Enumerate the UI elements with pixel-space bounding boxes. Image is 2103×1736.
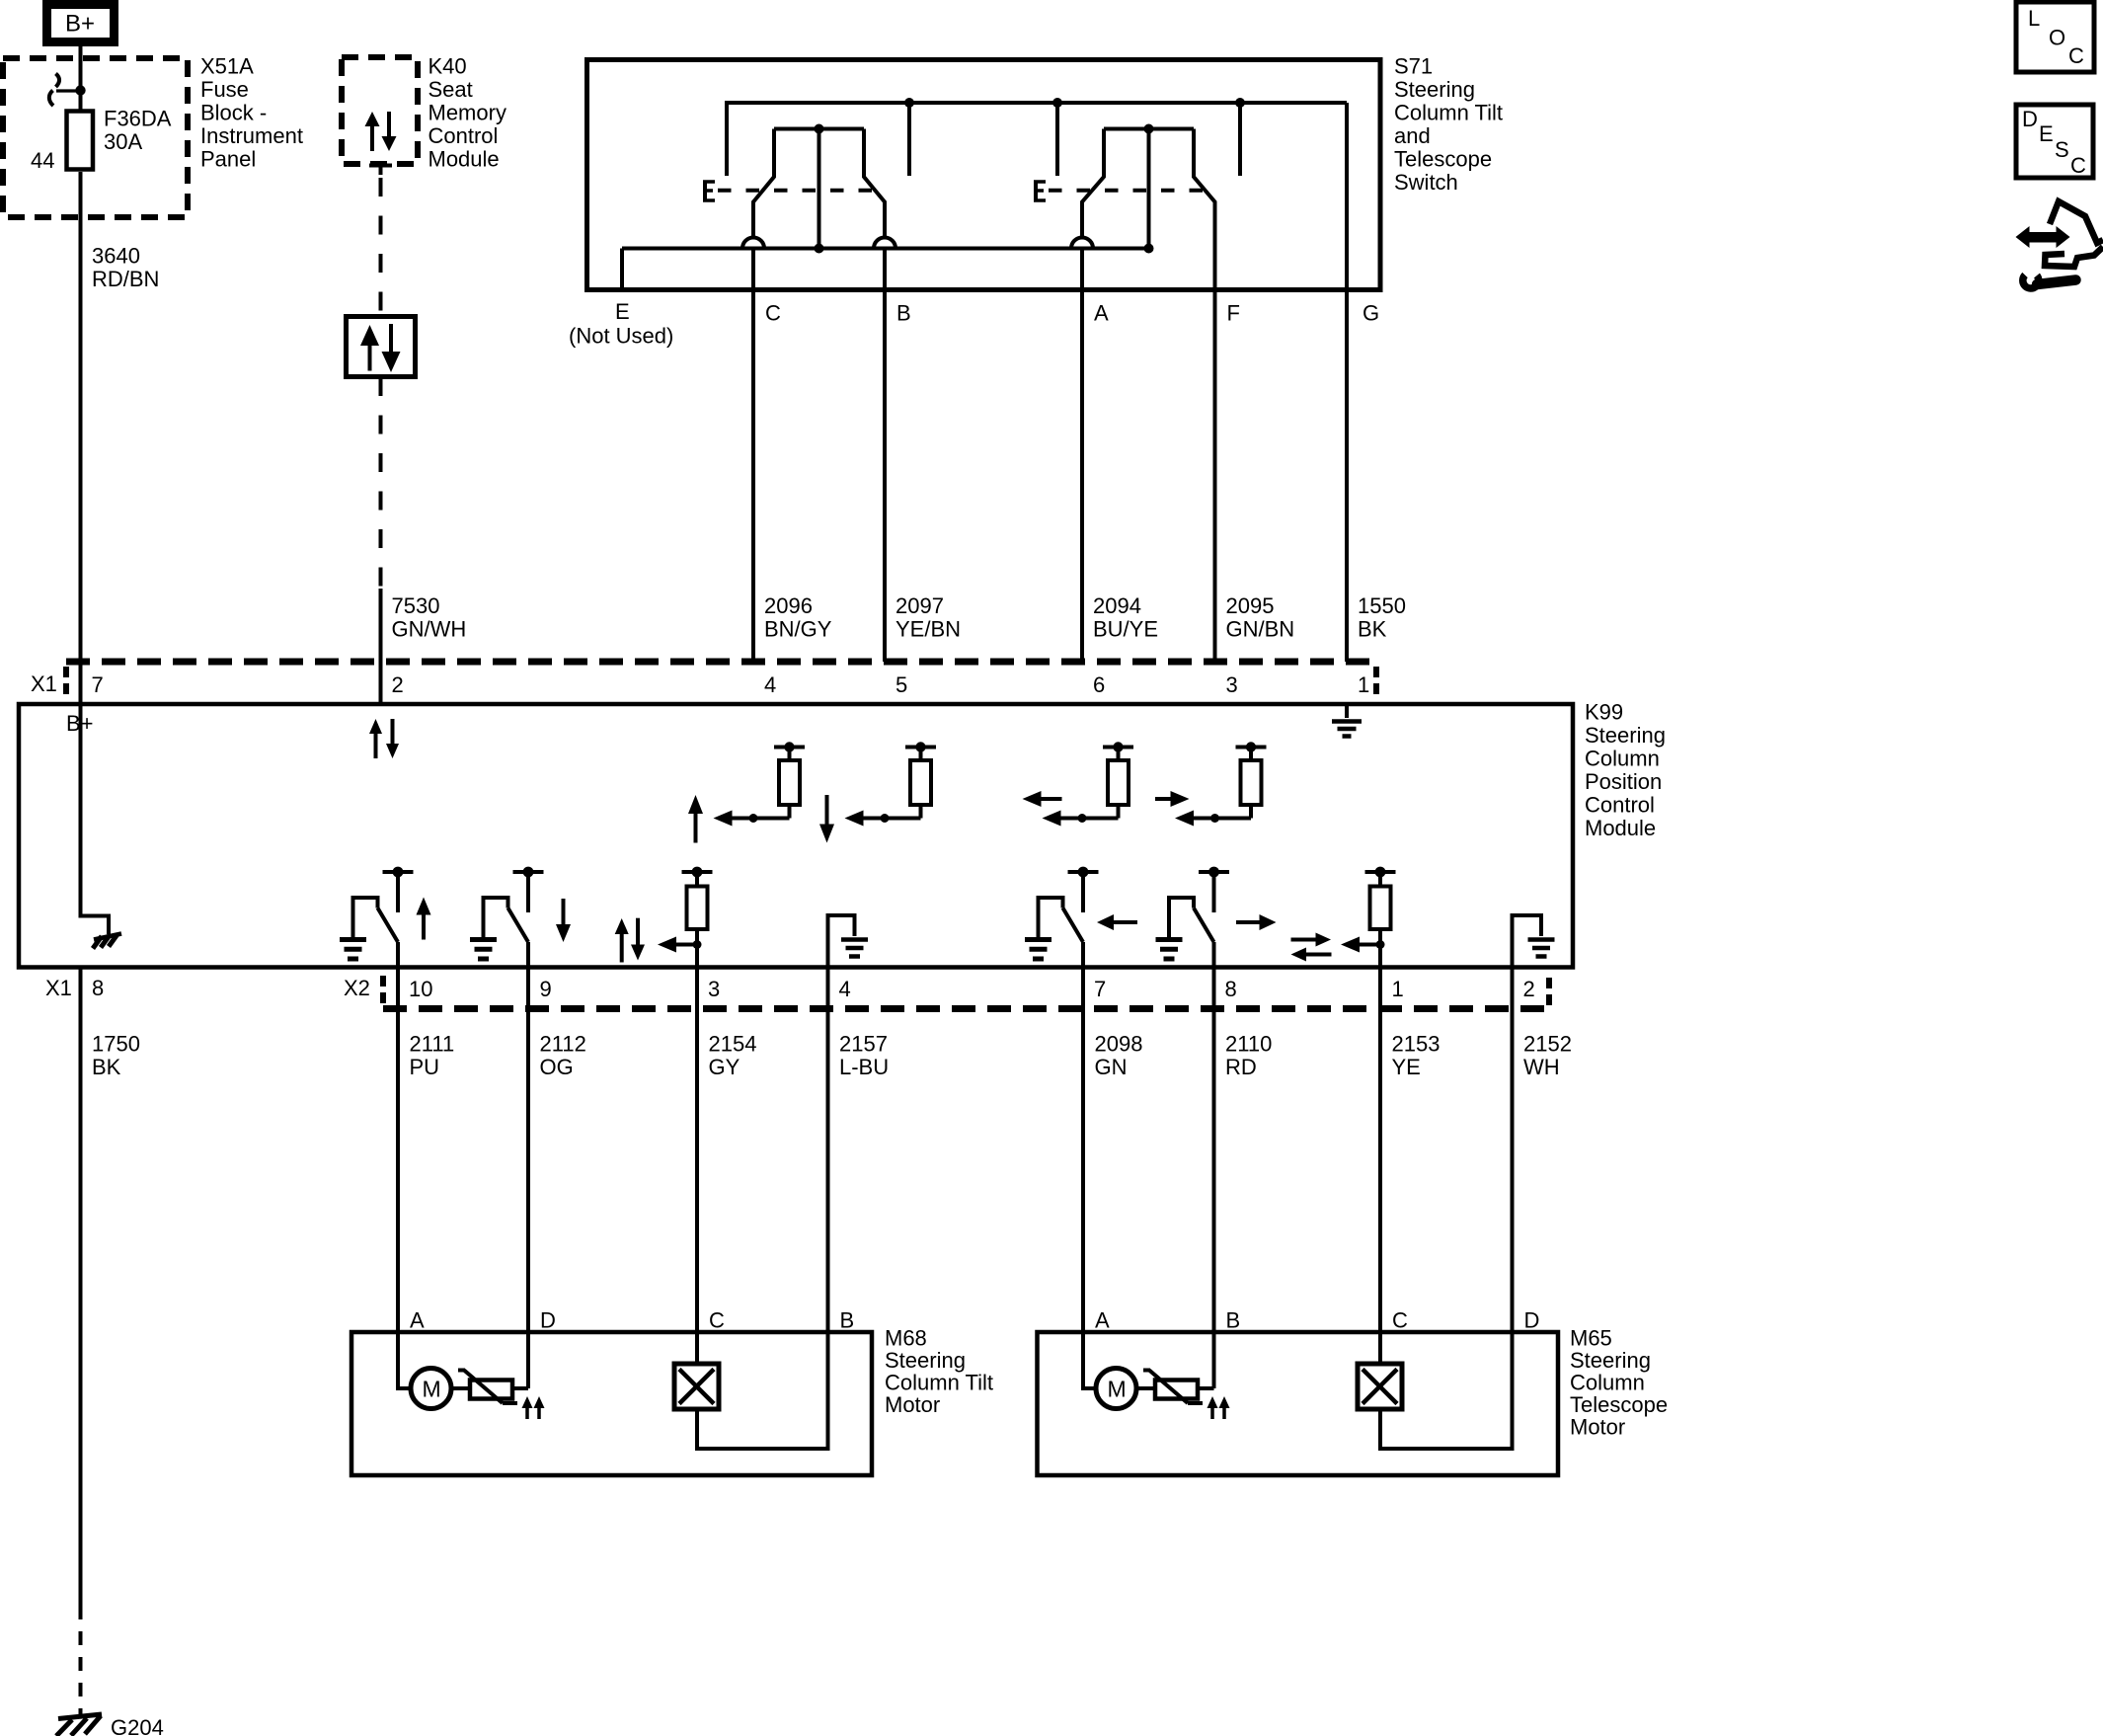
wire hop over rail at A — [1071, 238, 1093, 249]
svg-text:Telescope: Telescope — [1394, 147, 1492, 172]
svg-text:2: 2 — [392, 672, 404, 697]
wire 1750 BK K99 pin 8 to G204 — [79, 968, 83, 1607]
svg-text:G: G — [1363, 301, 1379, 326]
fuse block X51A dashed outline — [3, 58, 188, 217]
svg-text:K99: K99 — [1585, 700, 1623, 725]
K99 telescope sensor ground return (pin 2) — [1513, 915, 1542, 968]
steering column adjust icon wrench — [2023, 276, 2039, 289]
module K99 box outline — [19, 704, 1573, 968]
svg-text:BN/GY: BN/GY — [764, 617, 832, 642]
tilt switch left contact leg — [753, 129, 774, 239]
svg-text:Column: Column — [1570, 1371, 1645, 1395]
svg-text:O: O — [2049, 26, 2065, 50]
DESC legend box — [2016, 105, 2093, 178]
svg-text:Position: Position — [1585, 769, 1662, 794]
K99 telescope-out input sense (pin 3): pull-up resistor, node and right arrow — [1210, 814, 1219, 823]
M65 sensor return to pin D — [1380, 1332, 1513, 1449]
M68 pin A internal lead — [398, 1332, 411, 1388]
wire 2153 YE telescope position signal — [1378, 968, 1382, 1333]
svg-text:2096: 2096 — [764, 593, 813, 618]
svg-text:M: M — [423, 1376, 441, 1401]
svg-text:3: 3 — [1226, 672, 1238, 697]
M68 motor to thermal protector lead — [451, 1386, 472, 1390]
node telescope switch top — [1144, 124, 1154, 134]
svg-text:Column Tilt: Column Tilt — [885, 1371, 993, 1395]
K99 tilt position sensor feed (pin 3): resistor, node, up/down arrows — [682, 870, 713, 874]
svg-text:M68: M68 — [885, 1326, 927, 1351]
svg-text:L: L — [2028, 6, 2040, 31]
svg-text:2154: 2154 — [709, 1032, 757, 1057]
node on rail above tilt switch — [904, 98, 914, 108]
connector X2 dashed line — [383, 1005, 1549, 1012]
K99 internal B+ rail to chassis ground — [81, 704, 110, 934]
svg-text:Memory: Memory — [428, 101, 506, 125]
svg-text:GN/WH: GN/WH — [392, 617, 467, 642]
svg-text:1: 1 — [1392, 977, 1404, 1001]
motor M65 armature — [1096, 1369, 1136, 1409]
wire hop over rail at B — [874, 238, 896, 249]
svg-text:E: E — [2039, 121, 2054, 146]
S71 common rail bottom — [622, 247, 1149, 251]
connector X1 dashed line — [66, 659, 1376, 666]
S71 wire to pin G — [1345, 103, 1349, 662]
K99 seat-memory up/down arrows at pin 2 — [369, 719, 382, 734]
K99 tilt motor down driver (pin 9): contact to ground, down arrow — [513, 870, 544, 874]
svg-text:8: 8 — [92, 976, 104, 1000]
svg-text:D: D — [1524, 1308, 1540, 1333]
svg-text:X51A: X51A — [200, 54, 254, 79]
wire 2154 GY tilt position signal — [695, 968, 699, 1333]
node tilt switch common on rail — [815, 244, 824, 254]
wire 2098 GN telescope motor feed — [1081, 968, 1085, 1333]
svg-text:Control: Control — [1585, 793, 1655, 818]
wire 2097 YE/BN switch B to K99 pin 5 — [883, 249, 887, 663]
M65 thermal protector to pin B lead — [1198, 1386, 1214, 1390]
svg-text:2097: 2097 — [896, 593, 944, 618]
M68 tilt position sensor — [674, 1364, 719, 1409]
K99 internal chassis ground symbol — [94, 934, 121, 940]
M68 thermal protector temperature arrows — [522, 1396, 533, 1408]
svg-text:and: and — [1394, 123, 1431, 148]
S71 common rail top — [727, 101, 1347, 105]
svg-text:2: 2 — [1523, 977, 1535, 1001]
svg-text:4: 4 — [839, 977, 851, 1001]
svg-text:GY: GY — [709, 1055, 740, 1079]
connector X1 boundary mark left — [63, 667, 69, 695]
svg-text:2095: 2095 — [1226, 593, 1275, 618]
M68 thermal protector to pin D lead — [512, 1386, 528, 1390]
ground G204 symbol — [58, 1714, 102, 1719]
svg-text:6: 6 — [1093, 672, 1105, 697]
telescope switch actuator dashed link — [1049, 189, 1204, 193]
svg-text:GN/BN: GN/BN — [1226, 617, 1295, 642]
K40 up/down arrows symbol — [365, 112, 380, 126]
node on rail above telescope switch — [1235, 98, 1245, 108]
wire 7530 dashed segment upper — [379, 178, 383, 316]
svg-text:Steering: Steering — [1394, 77, 1475, 102]
node tilt switch top — [815, 124, 824, 134]
connector X2 boundary mark left — [380, 976, 386, 1004]
svg-text:7530: 7530 — [392, 593, 440, 618]
svg-text:C: C — [765, 301, 781, 326]
svg-text:Motor: Motor — [885, 1392, 940, 1417]
svg-text:Module: Module — [428, 147, 500, 172]
S71 telescope switch actuator post — [1055, 103, 1059, 176]
module K40 dashed outline — [342, 57, 418, 164]
wire 2094 BU/YE switch A to K99 pin 6 — [1080, 249, 1084, 663]
svg-text:3640: 3640 — [92, 244, 140, 269]
svg-text:Seat: Seat — [428, 77, 473, 102]
svg-text:Instrument: Instrument — [200, 123, 303, 148]
svg-text:Switch: Switch — [1394, 170, 1458, 195]
svg-text:Module: Module — [1585, 816, 1656, 840]
motor M68 box outline — [351, 1332, 872, 1475]
wire 2152 WH telescope position ground — [1511, 968, 1515, 1333]
svg-text:7: 7 — [92, 672, 104, 697]
K99 ground input at pin 1 — [1345, 704, 1349, 718]
svg-text:G204: G204 — [111, 1715, 164, 1736]
svg-text:C: C — [2068, 43, 2084, 68]
svg-text:10: 10 — [409, 977, 432, 1001]
S71 telescope switch fixed contact stub — [1238, 103, 1242, 176]
svg-text:M65: M65 — [1570, 1326, 1612, 1351]
svg-text:B: B — [1226, 1308, 1241, 1333]
svg-text:C: C — [2070, 153, 2086, 178]
svg-text:M: M — [1108, 1376, 1127, 1401]
M65 pin C internal lead — [1378, 1332, 1382, 1364]
svg-text:X1: X1 — [45, 976, 72, 1000]
svg-text:BU/YE: BU/YE — [1093, 617, 1158, 642]
svg-text:RD/BN: RD/BN — [92, 267, 159, 291]
wire 2112 OG tilt motor down feed — [526, 968, 530, 1333]
svg-text:WH: WH — [1523, 1055, 1560, 1079]
node junction at fuse input — [75, 85, 85, 95]
connector X2 boundary mark right — [1546, 978, 1552, 1007]
svg-text:2152: 2152 — [1523, 1032, 1572, 1057]
tilt switch actuator E glyph — [703, 181, 707, 202]
K99 tilt-down input sense (pin 5): pull-up resistor, node and down arrow — [881, 814, 890, 823]
S71 tilt switch actuator post — [725, 101, 729, 176]
svg-text:X2: X2 — [344, 976, 370, 1000]
svg-text:2098: 2098 — [1095, 1032, 1143, 1057]
svg-text:S71: S71 — [1394, 54, 1433, 79]
svg-text:5: 5 — [896, 672, 907, 697]
svg-text:GN: GN — [1095, 1055, 1128, 1079]
node on rail at telescope actuator — [1052, 98, 1062, 108]
svg-text:1550: 1550 — [1358, 593, 1406, 618]
svg-text:30A: 30A — [104, 129, 142, 154]
K99 tilt sensor ground return (pin 4) — [828, 915, 855, 968]
svg-text:RD: RD — [1225, 1055, 1257, 1079]
steering column adjust icon double arrow — [2016, 226, 2030, 248]
K99 telescope motor driver (pin 7): contact to ground, left arrow — [1068, 870, 1099, 874]
svg-text:B: B — [896, 301, 911, 326]
M65 thermal protector PTC — [1155, 1381, 1198, 1399]
telescope switch actuator E glyph — [1034, 181, 1038, 202]
svg-text:B: B — [840, 1308, 855, 1333]
M65 motor to thermal protector lead — [1136, 1386, 1157, 1390]
M68 thermal protector PTC — [470, 1381, 512, 1399]
K99 telescope position sensor feed (pin 1): resistor, node, in/out arrows — [1365, 870, 1396, 874]
K99 tilt motor up driver (pin 10): contact to ground, up arrow — [383, 870, 414, 874]
svg-text:OG: OG — [540, 1055, 574, 1079]
svg-text:Steering: Steering — [1570, 1348, 1651, 1373]
wire 2096 BN/GY switch C to K99 pin 4 — [751, 249, 755, 663]
M65 telescope position sensor — [1358, 1364, 1402, 1409]
svg-text:Motor: Motor — [1570, 1415, 1625, 1440]
wire 2111 PU tilt motor up feed — [396, 968, 400, 1333]
svg-text:A: A — [1094, 301, 1109, 326]
wire B+ to fuse F36DA — [79, 46, 83, 111]
wire 7530 GN/WH to K99 pin 2 — [379, 589, 383, 704]
node telescope switch common on rail — [1144, 244, 1154, 254]
svg-text:PU: PU — [410, 1055, 440, 1079]
S71 tilt switch fixed contact stub — [907, 103, 911, 176]
svg-text:44: 44 — [31, 148, 54, 173]
svg-text:2110: 2110 — [1225, 1032, 1272, 1057]
wire 2157 L-BU tilt position ground — [826, 968, 830, 1333]
tilt switch actuator dashed link — [718, 189, 873, 193]
wire 2110 RD telescope motor feed — [1212, 968, 1216, 1333]
svg-text:BK: BK — [1358, 617, 1387, 642]
svg-text:K40: K40 — [428, 54, 467, 79]
svg-text:2153: 2153 — [1392, 1032, 1441, 1057]
svg-text:Panel: Panel — [200, 147, 256, 172]
svg-text:8: 8 — [1225, 977, 1237, 1001]
tilt switch common leg — [818, 129, 821, 249]
telescope switch left contact leg — [1082, 129, 1104, 239]
svg-text:E: E — [615, 299, 630, 324]
wire 1750 BK dashed segment — [79, 1606, 83, 1717]
wire 3640 RD/BN fuse to K99 pin 7 — [79, 172, 83, 704]
svg-text:2157: 2157 — [839, 1032, 888, 1057]
S71 pin E stub — [620, 249, 624, 290]
M68 sensor return to pin B — [697, 1332, 828, 1449]
connector clip symbol at fuse block — [56, 89, 81, 92]
switch S71 box outline — [587, 60, 1381, 290]
svg-text:F: F — [1227, 301, 1240, 326]
svg-text:YE: YE — [1392, 1055, 1421, 1079]
svg-text:Control: Control — [428, 123, 499, 148]
svg-text:3: 3 — [708, 977, 720, 1001]
svg-text:C: C — [1392, 1308, 1408, 1333]
svg-text:2111: 2111 — [410, 1032, 455, 1057]
motor M68 armature — [411, 1369, 451, 1409]
svg-text:2094: 2094 — [1093, 593, 1141, 618]
svg-text:D: D — [2022, 107, 2038, 131]
svg-text:S: S — [2055, 137, 2069, 162]
svg-text:D: D — [540, 1308, 556, 1333]
M65 pin A internal lead — [1083, 1332, 1096, 1388]
connector X1 boundary mark right — [1373, 667, 1379, 695]
M68 pin C internal lead — [695, 1332, 699, 1364]
svg-text:YE/BN: YE/BN — [896, 617, 961, 642]
svg-text:1750: 1750 — [92, 1032, 140, 1057]
svg-text:A: A — [410, 1308, 425, 1333]
K99 tilt-up input sense (pin 4): pull-up resistor, node and up arrow — [749, 814, 758, 823]
K40 pin stub — [369, 164, 392, 168]
svg-text:BK: BK — [92, 1055, 121, 1079]
steering column adjust icon column outline — [2050, 201, 2103, 243]
seat memory switch box with up/down arrows — [347, 317, 416, 377]
svg-text:F36DA: F36DA — [104, 107, 172, 131]
svg-text:2112: 2112 — [540, 1032, 586, 1057]
svg-text:7: 7 — [1094, 977, 1106, 1001]
svg-text:Steering: Steering — [1585, 723, 1666, 748]
fuse F36DA 30A — [67, 112, 94, 170]
svg-text:L-BU: L-BU — [839, 1055, 889, 1079]
svg-text:Telescope: Telescope — [1570, 1392, 1668, 1417]
svg-text:X1: X1 — [31, 671, 57, 696]
svg-text:B+: B+ — [65, 11, 95, 38]
svg-text:1: 1 — [1358, 672, 1369, 697]
motor M65 box outline — [1038, 1332, 1559, 1475]
telescope switch common leg — [1147, 129, 1151, 249]
K99 telescope-in input sense (pin 6): pull-up resistor, node and left arrow — [1078, 814, 1087, 823]
wire 7530 dashed segment lower — [379, 377, 383, 589]
tilt switch top bar — [774, 127, 864, 131]
svg-text:Steering: Steering — [885, 1348, 966, 1373]
svg-text:C: C — [709, 1308, 725, 1333]
K99 telescope motor driver (pin 8): contact to ground, right arrow — [1199, 870, 1229, 874]
M65 thermal protector temperature arrows — [1207, 1396, 1218, 1408]
svg-text:9: 9 — [540, 977, 552, 1001]
telescope switch right contact leg — [1194, 129, 1215, 663]
tilt switch right contact leg — [864, 129, 885, 239]
svg-text:Block -: Block - — [200, 101, 267, 125]
svg-text:Fuse: Fuse — [200, 77, 249, 102]
svg-text:(Not Used): (Not Used) — [569, 324, 673, 349]
svg-text:4: 4 — [764, 672, 776, 697]
telescope switch top bar — [1104, 127, 1194, 131]
LOC legend box — [2016, 2, 2094, 72]
svg-text:Column: Column — [1585, 747, 1660, 771]
svg-text:Column Tilt: Column Tilt — [1394, 101, 1503, 125]
svg-text:A: A — [1095, 1308, 1110, 1333]
wire hop over rail at C — [742, 238, 764, 249]
battery B+ terminal box — [47, 5, 115, 42]
